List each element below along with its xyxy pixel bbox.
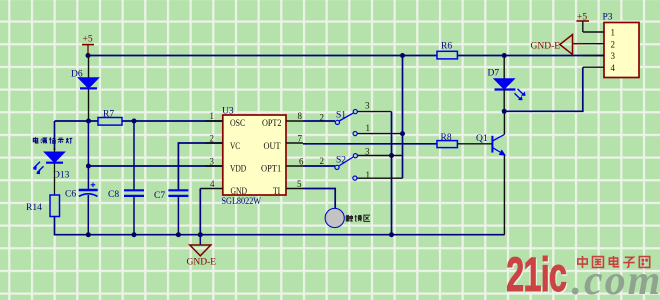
svg-text:7: 7 (298, 134, 303, 144)
ground GND-E bottom (187, 235, 217, 268)
LED D7 (488, 56, 526, 112)
svg-text:VC: VC (230, 142, 240, 152)
svg-text:3: 3 (611, 51, 616, 61)
ground GND-E right arrow (531, 35, 584, 55)
junction C8 bus (132, 232, 137, 237)
watermark 21ic (506, 247, 660, 300)
wire S2 throw1 (357, 177, 403, 179)
connector P3 (603, 13, 640, 78)
svg-text:8: 8 (298, 111, 303, 121)
wire R8 to Q1 base (457, 143, 491, 145)
junction VDD/C6 (86, 164, 91, 169)
diode D6 (71, 56, 99, 122)
svg-text:1: 1 (366, 170, 371, 180)
svg-text:2: 2 (611, 39, 616, 49)
svg-text:GND-E: GND-E (187, 258, 217, 268)
wire main rail down to D13 (54, 121, 56, 150)
svg-text:OUT: OUT (264, 142, 281, 152)
capacitor C8 (108, 190, 144, 235)
label power-indicator (CJK 电源指示灯) (33, 137, 72, 143)
wire R14 to ground bus (55, 217, 505, 235)
wire VDD pin3 to C6 node (88, 165, 222, 167)
watermark china-electronics-net (CJK 中国电子网) (578, 256, 650, 268)
resistor R14 (26, 195, 60, 217)
svg-text:GND-E: GND-E (531, 42, 561, 52)
svg-text:4: 4 (611, 63, 616, 73)
svg-text:4: 4 (210, 179, 215, 189)
switch S1 (335, 110, 357, 136)
svg-text:1: 1 (366, 123, 371, 133)
svg-text:6: 6 (299, 157, 304, 167)
capacitor C7 (154, 190, 188, 234)
switch S2 (335, 154, 358, 181)
U3 pin 6 stub (286, 165, 303, 167)
svg-text:OPT2: OPT2 (262, 119, 282, 129)
svg-text:SGL8022W: SGL8022W (222, 197, 262, 207)
wire VC pin2 to C7 (178, 143, 222, 190)
U3 pin 7 stub (286, 142, 303, 144)
svg-text:D13: D13 (53, 171, 70, 181)
wire vertical select net left (391, 112, 393, 235)
svg-text:2: 2 (320, 156, 325, 166)
svg-text:VDD: VDD (230, 165, 246, 175)
junction GND bus (198, 232, 203, 237)
junction D7 / P3 pin4 net (502, 109, 507, 114)
LED D13 (33, 148, 70, 195)
wire OUT pin7 to R8 (303, 143, 437, 145)
svg-text:3: 3 (365, 101, 370, 111)
U3 pin 4 stub (200, 188, 223, 190)
svg-text:Q1: Q1 (476, 134, 488, 144)
resistor R8 (437, 133, 457, 148)
svg-text:C7: C7 (154, 191, 165, 201)
wire GND pin4 down to bus (199, 189, 201, 235)
P3 pin 4 stub (583, 66, 604, 68)
svg-text:21ic: 21ic (506, 247, 566, 300)
junction C7 bus (176, 232, 181, 237)
svg-text:1: 1 (210, 111, 215, 121)
svg-text:+5: +5 (83, 35, 93, 45)
U3 pin 5 stub (286, 188, 303, 190)
IC U3 SGL8022W (222, 107, 287, 208)
svg-text:S1: S1 (336, 111, 346, 121)
P3 pin 2 stub (583, 43, 604, 45)
wire TI pin5 to touch pad (303, 189, 335, 210)
capacitor C6 (65, 183, 98, 235)
wire OPT2 pin8 to S1 common (303, 120, 335, 122)
wire D6 branch down to C6 (87, 121, 89, 190)
U3 pin 3 stub (205, 165, 223, 167)
power +5 left (82, 35, 94, 56)
svg-text:5: 5 (297, 179, 302, 189)
transistor Q1 (476, 111, 505, 234)
wire R7 junction down to C8 (133, 121, 135, 190)
junction select net bus (389, 232, 394, 237)
svg-text:GND: GND (231, 187, 248, 197)
wire S1 throw1 (357, 133, 402, 135)
svg-text:C8: C8 (108, 190, 119, 200)
junction R7 right (132, 119, 137, 124)
svg-text:OPT1: OPT1 (261, 165, 281, 175)
junction select net S2 throw3 (389, 153, 394, 158)
wire S1 throw3 (357, 111, 391, 113)
svg-text:OSC: OSC (230, 119, 245, 129)
svg-text:3: 3 (365, 147, 370, 157)
junction +5 rail / select (400, 53, 405, 58)
svg-text:2: 2 (320, 113, 325, 123)
svg-text:P3: P3 (603, 13, 613, 23)
svg-text:R6: R6 (441, 42, 452, 52)
svg-text:R14: R14 (26, 203, 42, 213)
svg-text:2: 2 (210, 134, 215, 144)
junction +5 rail / D7 (502, 53, 507, 58)
wire S2 throw3 (358, 155, 403, 157)
U3 pin 1 stub (205, 120, 223, 122)
svg-text:C6: C6 (65, 190, 76, 200)
svg-text:D7: D7 (488, 69, 500, 79)
svg-text:3: 3 (210, 157, 215, 167)
power +5 right (577, 12, 590, 32)
junction at +5 left (86, 53, 91, 58)
P3 pin 3 stub (583, 55, 604, 57)
wire top +5 rail (88, 55, 604, 57)
label touch-area (CJK 触摸区) (346, 215, 370, 221)
U3 pin 8 stub (286, 120, 303, 122)
resistor R6 (437, 42, 457, 59)
wire D7 node to P3 pin4 (504, 67, 583, 111)
touch pad circle (325, 208, 344, 227)
svg-text:1: 1 (611, 28, 616, 38)
svg-text:TI: TI (273, 187, 280, 197)
wire main rail to U3 pin1 (55, 120, 223, 122)
junction C6 bus (86, 232, 91, 237)
U3 pin 2 stub (205, 142, 223, 144)
junction D6/main rail (86, 119, 91, 124)
wire OPT1 pin6 to S2 common (303, 165, 335, 167)
wire vertical +5 select net right (402, 56, 404, 179)
P3 pin 1 stub (583, 31, 604, 33)
resistor R7 (98, 110, 122, 126)
junction S1 throw1 (400, 131, 405, 136)
